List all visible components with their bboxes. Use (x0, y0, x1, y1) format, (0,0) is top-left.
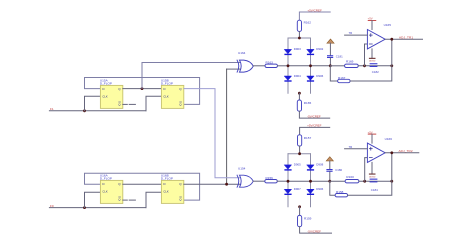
junction: arrow/feedback tap on mid rail (329, 64, 332, 67)
wire: U16A Q to U16B D y=184.2 (123, 183, 162, 185)
wire: arrow stem to C180 (329, 161, 331, 169)
xor gate U164 (237, 51, 253, 72)
svg-text:CLK: CLK (102, 189, 107, 193)
junction: bridge mid right (309, 180, 312, 183)
power arrow CREF (bottom section) (326, 157, 333, 161)
svg-text:D905: D905 (294, 163, 301, 167)
svg-text:R162: R162 (304, 21, 312, 25)
junction: output node (390, 38, 393, 41)
junction: bridge mid left (287, 64, 290, 67)
wire: feedback rail y=173.3 from U16B Qbar to U16A D (85, 173, 200, 200)
ground AGND (op-amp U165 V-) (371, 49, 373, 58)
wire: bottom input run y=207.6 (49, 207, 146, 209)
wire: U15A Qbar no-connect stub (123, 103, 128, 105)
junction: feedback node on mid rail (390, 64, 393, 67)
wire: mid rail to R160 (330, 180, 345, 182)
wire: inverting input riser (365, 44, 368, 66)
junction: top input at x=84.5 (83, 109, 86, 112)
junction: inverting node (363, 64, 366, 67)
svg-text:CLK: CLK (102, 94, 107, 98)
svg-text:R159: R159 (304, 216, 312, 220)
wire: bridge top rail y=153.7 (288, 153, 311, 155)
wire: bottom node to R159 (299, 207, 301, 216)
wire: XOR1 lower input from x=226.6 (227, 68, 241, 70)
svg-text:C180: C180 (335, 168, 342, 172)
svg-text:R165: R165 (304, 101, 312, 105)
wire: C181 to mid rail (329, 58, 331, 66)
wire: R156 to bridge (277, 180, 288, 182)
junction: bridge mid left (287, 180, 290, 183)
wire: bridge right branch x=310.5 (310, 154, 312, 207)
svg-text:CLK: CLK (163, 189, 168, 193)
junction: bridge bottom node (298, 92, 301, 95)
junction: bottom input at x=84.5 (83, 206, 86, 209)
wire: bridge left branch x=288 (287, 154, 289, 207)
wire: lower feedback path through R167 (330, 66, 337, 81)
wire: C180 to mid rail (329, 172, 331, 181)
wire: CLK U16B riser x=146 (146, 192, 161, 207)
wire: R158 to output riser (348, 153, 392, 195)
wire: R169 to inverting node (358, 65, 392, 67)
wire: R162 to bridge top node (298, 32, 300, 39)
svg-text:U154: U154 (238, 167, 246, 171)
wire: feedback rail y=77.5 from U15B Qbar to U15A D (85, 78, 200, 105)
svg-text:R157: R157 (304, 136, 312, 140)
svg-text:AGND: AGND (369, 175, 376, 178)
wire: op-amp output run (385, 38, 422, 40)
wire: bridge mid rail y=181.2 (288, 180, 330, 182)
svg-text:CLK: CLK (163, 94, 168, 98)
junction: bridge top node (298, 37, 301, 40)
xor gate U154 (237, 167, 253, 188)
wire: riser x=142 to XOR1 upper input (142, 63, 240, 89)
junction: bridge mid right (309, 64, 312, 67)
junction: bridge bottom node (298, 205, 301, 208)
wire: R157 to bottom bridge top node (299, 146, 301, 154)
wire: op-amp output run (385, 152, 419, 154)
wire: R163 to bridge (278, 65, 289, 67)
wire: bridge right branch x=310.5 (310, 38, 312, 93)
svg-text:D902: D902 (316, 47, 323, 51)
svg-text:D903: D903 (294, 47, 301, 51)
wire: bridge mid rail y=65.8 (288, 65, 330, 67)
wire: lower feedback path through R158 (330, 181, 335, 195)
svg-text:U164: U164 (238, 51, 246, 55)
junction: feedback node on mid rail (390, 180, 393, 183)
svg-text:D906: D906 (316, 187, 323, 191)
svg-text:ADJ_TR1: ADJ_TR1 (399, 35, 413, 39)
svg-text:C184: C184 (371, 188, 378, 192)
wire: bridge left branch x=288 (287, 38, 289, 93)
wire: CLK U15A riser (85, 96, 101, 111)
svg-text:U166: U166 (385, 137, 393, 141)
junction: XOR2 lower input tap x=226.6 (225, 183, 228, 186)
wire: CLK U16A riser (85, 192, 101, 207)
wire: XOR2 output to R156 (253, 180, 264, 182)
flip-flop U15B (161, 79, 184, 109)
wire: R167 to output riser (350, 39, 392, 81)
wire: arrow stem to C181 (329, 43, 331, 55)
svg-text:C182: C182 (372, 70, 379, 74)
svg-text:U165: U165 (384, 23, 392, 27)
wire: top input run y=110.8 (49, 110, 146, 112)
svg-text:D906: D906 (316, 74, 323, 78)
wire: mid rail to R169 (330, 65, 344, 67)
wire: U15A Q to U15B D y=88.6 (123, 88, 162, 90)
svg-text:R169: R169 (346, 59, 354, 63)
wire: U16B Q to XOR2 lower input y=184.2 (184, 183, 240, 185)
wire: XOR1 output to R163 (253, 65, 265, 67)
svg-text:D908: D908 (316, 163, 323, 167)
flip-flop U16A (100, 174, 123, 204)
wire: R160 to inverting node (359, 180, 392, 182)
wire: bridge top rail y=38 (288, 37, 311, 39)
svg-text:R160: R160 (346, 175, 354, 179)
op-amp U166 (367, 137, 392, 162)
power arrow CREF (top section) (327, 39, 334, 43)
wire: CLK U15B riser x=146 (146, 96, 161, 111)
wire: U16A Qbar no-connect stub (123, 199, 128, 201)
svg-text:ADJ_TR2: ADJ_TR2 (399, 149, 413, 153)
junction: inverting node (363, 180, 366, 183)
wire: bottom node to R165 (298, 93, 300, 100)
wire: inverting input riser (365, 158, 368, 182)
svg-text:D907: D907 (294, 187, 301, 191)
wire: U15B Q to x=215 riser down to XOR2 upper input (184, 89, 240, 178)
flip-flop U15A (100, 79, 123, 109)
capacitor C184 (370, 179, 378, 180)
flip-flop U16B (161, 174, 184, 204)
svg-text:C181: C181 (336, 55, 343, 59)
ground AGND (op-amp U166 V-) (371, 162, 373, 173)
junction: arrow/feedback tap on mid rail (328, 180, 331, 183)
svg-text:AGND: AGND (369, 60, 376, 63)
junction: bridge top node (298, 152, 301, 155)
wire: long vertical x=226.6 to bottom section (226, 69, 228, 184)
junction: U15A Q node (141, 87, 144, 90)
junction: output node (390, 151, 393, 154)
op-amp U165 (367, 23, 391, 49)
svg-text:D904: D904 (294, 74, 301, 78)
capacitor C182 (370, 63, 378, 64)
